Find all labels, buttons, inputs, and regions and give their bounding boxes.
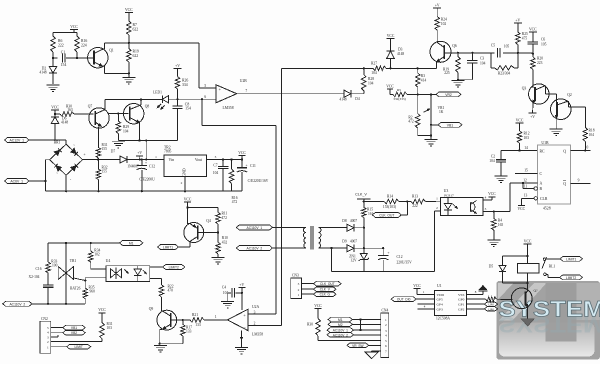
svg-text:7: 7 (385, 350, 387, 354)
svg-text:D4: D4 (355, 97, 360, 101)
svg-text:R5: R5 (397, 88, 401, 92)
svg-text:C3: C3 (480, 57, 484, 61)
svg-text:222: 222 (412, 204, 418, 208)
flag CLK_V (CN3) (301, 287, 336, 292)
svg-text:−: − (243, 325, 246, 330)
svg-text:CLK_V: CLK_V (320, 288, 331, 292)
wire Q8 emitter down (138, 123, 140, 142)
wire bridge bottom down (65, 175, 67, 192)
resistor R23 loop (491, 53, 518, 76)
svg-text:1K: 1K (439, 110, 444, 114)
svg-text:R24: R24 (441, 18, 447, 22)
flag AC110V_1 (CN4) (327, 328, 381, 333)
svg-text:VDD: VDD (437, 293, 445, 297)
svg-text:AC110V_1: AC110V_1 (333, 329, 348, 333)
wire U1 VSS to ground (466, 290, 483, 294)
svg-text:U2A: U2A (252, 305, 260, 309)
svg-text:R21: R21 (192, 313, 198, 317)
svg-text:4007: 4007 (350, 240, 357, 244)
ground (below C2) (495, 176, 508, 183)
diode D6 (51, 113, 68, 140)
IC U1B box (538, 141, 571, 211)
svg-text:133: 133 (186, 330, 192, 334)
svg-text:622: 622 (133, 28, 139, 32)
svg-text:U1B: U1B (541, 141, 549, 145)
wire to ground (128, 73, 130, 77)
flag VR2 (436, 92, 461, 97)
svg-text:220U/35V: 220U/35V (397, 261, 413, 265)
wire Q9 emitter (159, 329, 183, 345)
bridge diode bl (54, 164, 61, 171)
power VCC (D3 top) (387, 34, 395, 44)
U1B pin CLR with bubble (521, 194, 548, 206)
svg-text:14: 14 (524, 146, 528, 150)
svg-text:5: 5 (204, 84, 206, 88)
svg-text:Q3: Q3 (522, 87, 527, 91)
svg-text:+: + (145, 161, 147, 165)
svg-text:R10: R10 (222, 236, 228, 240)
wire Q2 emitter to ground (555, 119, 557, 129)
power VCC (R31-103) (98, 308, 106, 322)
svg-text:M2: M2 (338, 323, 343, 327)
svg-text:VCC: VCC (488, 192, 496, 196)
transformer T1 primary (273, 227, 307, 248)
wire U1 pin4 (418, 305, 435, 309)
svg-text:VCC: VCC (518, 207, 526, 211)
wire Q10 emitter down (527, 308, 529, 319)
svg-text:AC110V_2: AC110V_2 (9, 302, 25, 306)
U1B pin Q output (563, 146, 590, 154)
svg-text:163: 163 (67, 108, 73, 112)
resistor R30 (163) (55, 105, 94, 117)
svg-text:GP5: GP5 (437, 298, 443, 302)
flag VB1 (CN2) (51, 325, 86, 330)
svg-text:C6: C6 (541, 38, 545, 42)
flag M2 (CN4) (328, 322, 381, 327)
U1B pin Qbar output (563, 179, 590, 186)
svg-text:5: 5 (385, 339, 387, 343)
svg-text:VSS: VSS (458, 293, 464, 297)
svg-text:CLK_V: CLK_V (355, 192, 367, 196)
U1B pin RC text (540, 149, 546, 153)
svg-text:LM358: LM358 (222, 106, 233, 110)
svg-text:+V: +V (530, 115, 535, 119)
ground (below R29) (112, 141, 125, 148)
resistor R16 (472) (229, 160, 237, 205)
wire emitter rail (118, 139, 177, 141)
svg-text:VCC: VCC (238, 151, 246, 155)
svg-text:334: 334 (182, 83, 188, 87)
svg-text:104: 104 (213, 171, 219, 175)
svg-text:1: 1 (47, 345, 49, 349)
svg-text:R27: R27 (371, 62, 377, 66)
net CLK_V (355, 192, 370, 207)
flag VB1 (430, 122, 462, 127)
wire collector rail to opamp (104, 43, 199, 88)
svg-text:C2: C2 (491, 155, 495, 159)
svg-text:PC817: PC817 (444, 193, 454, 197)
wire R34 to U4 (91, 268, 106, 270)
svg-text:LIMIT1: LIMIT1 (566, 257, 576, 261)
svg-text:622: 622 (133, 54, 139, 58)
svg-text:104: 104 (368, 82, 374, 86)
connector CN3 (291, 274, 302, 299)
svg-text:R28: R28 (368, 77, 374, 81)
svg-text:R13: R13 (412, 195, 418, 199)
power VCC (R30) (314, 304, 322, 318)
wire down to +V rail (145, 140, 147, 160)
U3 pin4 to VCC (483, 192, 496, 200)
svg-text:C5: C5 (491, 44, 495, 48)
svg-text:102: 102 (94, 253, 100, 257)
flag LIMIT1 (Q4) (158, 245, 179, 250)
power VCC (Q4) (184, 197, 192, 224)
svg-text:6: 6 (204, 95, 206, 99)
diode D7 1N4007 (120, 156, 164, 169)
svg-text:−: − (219, 97, 222, 102)
power VCC (top-left rail) (53, 25, 78, 33)
svg-text:4148: 4148 (61, 121, 68, 125)
svg-text:D8: D8 (342, 219, 347, 223)
svg-text:5: 5 (47, 326, 49, 330)
svg-text:C/E220U/16V: C/E220U/16V (248, 179, 269, 183)
svg-text:1: 1 (436, 196, 438, 200)
capacitor C6 (528, 38, 547, 55)
power VCC (Q7 area) (51, 105, 59, 114)
transformer T1 secondary (318, 227, 347, 248)
svg-text:R3: R3 (421, 74, 425, 78)
wire CLK_V to R14 (364, 201, 384, 203)
svg-text:VR2: VR2 (445, 93, 452, 97)
connector CN2 (40, 317, 51, 353)
wire Q6 emitter to main wire (436, 62, 438, 69)
svg-text:Vout: Vout (195, 158, 203, 162)
wire D8-D9 tie (363, 228, 365, 249)
bridge diode tr (71, 148, 78, 155)
capacitor C8 (172, 99, 191, 140)
resistor R26 (334) (175, 77, 188, 100)
bridge BR1 outline (50, 141, 87, 183)
flag M1 (CN4) (328, 317, 381, 322)
power VCC (relay) (524, 239, 532, 257)
svg-text:GP3: GP3 (437, 307, 443, 311)
wire Q10 collector to relay (527, 283, 529, 291)
svg-text:R18: R18 (589, 129, 595, 133)
resistor R13 (inline) (411, 195, 425, 208)
wire divider bottom (418, 134, 432, 139)
svg-text:AC110V_2: AC110V_2 (247, 247, 263, 251)
svg-text:3: 3 (485, 207, 487, 211)
wire bridge left to AC6V (44, 160, 49, 192)
wire R30 to CN4 pin5 (318, 340, 381, 342)
flag AC6V_1 (5, 179, 46, 184)
svg-text:470: 470 (168, 289, 174, 293)
svg-text:CLR: CLR (540, 197, 548, 201)
flag M1 (120, 240, 143, 245)
svg-text:7805: 7805 (164, 149, 172, 153)
wire CN2 pin2 to R31 (51, 339, 102, 342)
wire Q1 collector up (103, 43, 106, 49)
svg-text:165: 165 (498, 223, 504, 227)
wire ground rail (main) (46, 190, 243, 192)
resistor R17 (133) (181, 320, 193, 344)
wire Q4 collector to LIMIT1 (179, 241, 191, 247)
svg-text:1: 1 (155, 155, 157, 159)
power VCC (U1) (413, 284, 434, 294)
svg-text:4: 4 (485, 195, 487, 199)
power VCC (CLR pulldown) (518, 206, 526, 212)
svg-text:+V: +V (239, 283, 244, 287)
resistor R (Q9 base) (486, 297, 513, 302)
svg-text:1: 1 (298, 293, 300, 297)
svg-text:1: 1 (215, 315, 217, 319)
wire Q8 collector up (140, 98, 142, 105)
bridge diode br (71, 164, 78, 171)
svg-text:D9: D9 (342, 240, 347, 244)
resistor R7 (127, 21, 139, 44)
bridge diode tl (54, 148, 61, 155)
svg-text:105: 105 (541, 43, 547, 47)
svg-text:VB1: VB1 (71, 326, 77, 330)
wire C1 to Q1 base (66, 57, 95, 59)
svg-text:BAT26: BAT26 (70, 286, 81, 290)
triac TR1 (58, 243, 76, 304)
svg-text:2: 2 (181, 181, 183, 185)
svg-text:2: 2 (47, 340, 49, 344)
svg-text:161: 161 (368, 212, 374, 216)
svg-text:VCC: VCC (98, 308, 106, 312)
svg-text:VCC: VCC (125, 8, 133, 12)
resistor R33 (46, 243, 58, 273)
svg-text:+V: +V (515, 18, 520, 22)
svg-text:A: A (540, 182, 543, 186)
power VCC (7805 out) (238, 151, 246, 161)
svg-text:7: 7 (245, 89, 247, 93)
flag LIMIT2 (relay NC) (546, 274, 582, 280)
flag GP2 (466, 307, 497, 312)
diode D2 (39, 58, 56, 84)
svg-text:VCC: VCC (516, 118, 524, 122)
wire GP0 to resistor (466, 298, 485, 300)
wire main (U2A pin2 bus) (282, 67, 437, 69)
svg-text:103: 103 (524, 136, 530, 140)
svg-text:CN3: CN3 (292, 274, 299, 278)
wire Q4 base (198, 232, 218, 234)
svg-text:2: 2 (436, 206, 438, 210)
capacitor C11 electrolytic (237, 160, 269, 192)
ground (divider) (425, 140, 438, 147)
wire Q6 base bus (444, 52, 533, 54)
svg-text:104: 104 (589, 133, 595, 137)
wire D6 to bridge top (55, 140, 66, 144)
svg-text:OUT_DI0: OUT_DI0 (397, 298, 411, 302)
flag OUT_DIO (391, 297, 435, 302)
U3 pin2 wire down (435, 206, 441, 272)
svg-text:R16: R16 (81, 39, 87, 43)
ground (C4) (221, 301, 234, 308)
relay RL1 coil (518, 256, 556, 283)
svg-text:VCC: VCC (386, 84, 394, 88)
svg-text:R25: R25 (522, 32, 528, 36)
regulator TR2 7805 box (155, 146, 217, 185)
resistor R20 (531, 54, 544, 88)
svg-text:RC: RC (540, 149, 546, 153)
wire pin14 RC (501, 146, 538, 151)
resistor R31 (155) (96, 127, 108, 160)
resistor R14 (inline) (383, 194, 399, 209)
wire U3 pin3 up to pin A (509, 183, 511, 211)
svg-text:D3: D3 (398, 48, 403, 52)
optocoupler U4 (106, 259, 150, 281)
flag AC110V_2 (to transformer) (236, 246, 272, 251)
svg-text:LIMIT1: LIMIT1 (163, 246, 173, 250)
svg-text:Vin: Vin (169, 158, 175, 162)
svg-text:LIMIT2: LIMIT2 (566, 276, 576, 280)
U3 pin3 wire (483, 207, 510, 213)
svg-text:1: 1 (385, 318, 387, 322)
svg-text:2: 2 (385, 323, 387, 327)
svg-text:C12: C12 (149, 165, 155, 169)
wire relay top to D5 (503, 255, 528, 257)
svg-text:C16: C16 (36, 267, 42, 271)
svg-text:C12: C12 (397, 255, 403, 259)
svg-text:472: 472 (222, 216, 228, 220)
svg-text:CLK_OUT: CLK_OUT (320, 282, 335, 286)
svg-text:+: + (245, 164, 247, 168)
svg-text:LIMIT: LIMIT (74, 345, 82, 349)
zener ZN1 (349, 248, 369, 271)
wire opamp plus input (199, 87, 216, 89)
potentiometer VR1 (424, 94, 445, 135)
flag LIMIT2 (U4) (163, 265, 185, 270)
svg-text:472: 472 (408, 120, 414, 124)
U1B pin A (510, 178, 542, 185)
resistor R18 (583, 128, 595, 151)
power VCC (R5) (386, 84, 394, 94)
ground (below R10) (212, 258, 225, 265)
svg-text:D5: D5 (489, 265, 494, 269)
U1B pin B with bubble (522, 182, 543, 191)
svg-text:100: 100 (52, 263, 58, 267)
svg-text:414: 414 (421, 79, 427, 83)
triac gate / BAT26 (70, 278, 86, 290)
svg-text:D7: D7 (111, 150, 116, 154)
svg-text:4007: 4007 (350, 219, 357, 223)
svg-text:4148: 4148 (397, 52, 404, 56)
svg-text:12: 12 (523, 178, 527, 182)
resistor R24 (435, 17, 447, 43)
svg-text:LIM: LIM (488, 307, 494, 311)
svg-text:102: 102 (441, 22, 447, 26)
svg-text:RL1: RL1 (549, 265, 556, 269)
ground (below R19) (122, 78, 135, 85)
wire D9 node to C12 (364, 247, 385, 249)
svg-text:SYSTEM: SYSTEM (499, 297, 600, 322)
svg-text:3: 3 (47, 335, 49, 339)
svg-text:155: 155 (102, 147, 108, 151)
label D7 (111, 150, 116, 154)
diode D5 (489, 256, 506, 283)
svg-text:R12: R12 (524, 132, 530, 136)
svg-text:223: 223 (537, 61, 543, 65)
svg-text:225: 225 (444, 71, 450, 75)
flag AC110V_1 mid (0, 0, 1, 1)
svg-text:CN2: CN2 (41, 317, 48, 321)
svg-text:4148: 4148 (39, 71, 46, 75)
transistor Q9 (149, 307, 177, 330)
diode D3 (387, 44, 405, 69)
svg-text:3: 3 (215, 155, 217, 159)
svg-text:R29: R29 (123, 125, 129, 129)
svg-text:3: 3 (385, 329, 387, 333)
svg-text:C11: C11 (250, 164, 256, 168)
wire D5 bottom (503, 282, 529, 284)
wire Q4 emitter-vcc (188, 223, 191, 225)
flag AC110V_2 (triac) (3, 301, 86, 306)
flag VB2 (CN2) (51, 330, 86, 335)
svg-text:CLK_OUT: CLK_OUT (379, 213, 394, 217)
transistor Q7 (88, 105, 109, 129)
svg-text:153(103): 153(103) (383, 205, 397, 209)
flag AC110V_2 (CN4) (327, 333, 381, 338)
wire M1-AC110V1 tie (360, 320, 362, 331)
svg-text:154: 154 (185, 106, 191, 110)
power +V (U2A) (238, 283, 245, 310)
svg-text:133: 133 (195, 323, 201, 327)
power +V (rectified rail) (136, 151, 143, 160)
wire U4 out to R22 (150, 279, 162, 285)
transistor Q8 (124, 104, 150, 124)
flag AC110V_1 (to transformer) (236, 225, 272, 230)
svg-text:C/E2200U: C/E2200U (139, 178, 155, 182)
svg-text:Q7: Q7 (88, 105, 93, 109)
IC U1 12C508A (435, 284, 467, 321)
svg-text:10: 10 (585, 146, 589, 150)
svg-text:R14: R14 (387, 194, 393, 198)
resistor R10 (216, 233, 228, 258)
resistor R27 (inline) (371, 62, 386, 75)
relay switch arm (542, 257, 547, 275)
svg-text:~: ~ (73, 143, 75, 147)
wire Q7 collector to Q8 base (108, 113, 129, 115)
svg-text:475: 475 (522, 37, 528, 41)
flag GP1 (466, 302, 497, 307)
svg-text:GP1: GP1 (458, 303, 464, 307)
power VCC (R7 top) (125, 8, 133, 21)
resistor R22 (159, 284, 173, 311)
flag VR_SW (347, 343, 381, 348)
svg-text:+V: +V (137, 151, 142, 155)
diode D9 (342, 240, 365, 252)
ground (below R19-225) (451, 81, 464, 88)
svg-text:15: 15 (524, 169, 528, 173)
capacitor C12 electrolytic 2200U (137, 158, 156, 192)
svg-text:CN4: CN4 (382, 309, 389, 313)
svg-text:2: 2 (298, 288, 300, 292)
svg-text:R19: R19 (133, 50, 139, 54)
wire VR2 node (417, 93, 436, 95)
resistor R35 (83, 278, 95, 304)
wire ground rail (clk supply) (330, 247, 434, 272)
svg-text:4: 4 (47, 331, 49, 335)
connector CN4 (381, 309, 389, 358)
diode D4 (339, 90, 363, 101)
svg-text:C7: C7 (213, 163, 217, 167)
svg-text:GP2: GP2 (458, 307, 464, 311)
svg-text:U4: U4 (106, 259, 111, 263)
svg-text:LIM: LIM (488, 303, 494, 307)
svg-text:Q1: Q1 (109, 49, 114, 53)
